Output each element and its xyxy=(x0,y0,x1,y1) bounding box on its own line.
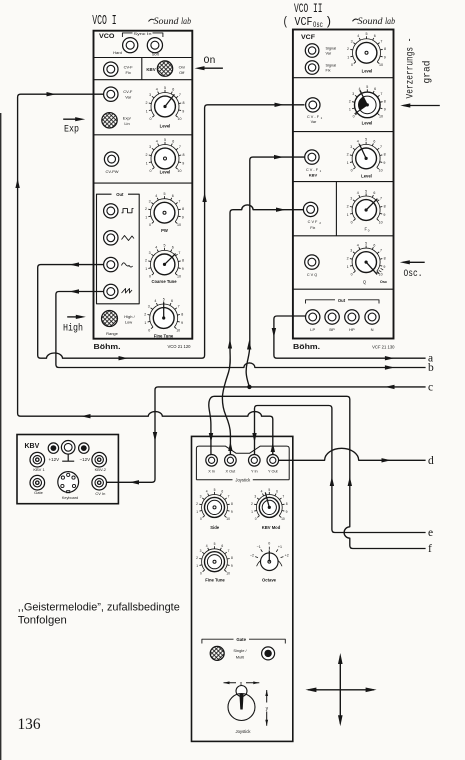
DIN keyboard connector xyxy=(58,472,79,493)
jack square wave out xyxy=(104,204,118,218)
jack CV-F Fix xyxy=(104,62,118,76)
joystick base circle xyxy=(228,694,255,721)
svg-text:d: d xyxy=(428,455,434,467)
svg-text:Fine Tune: Fine Tune xyxy=(205,578,225,583)
svg-text:Tonfolgen: Tonfolgen xyxy=(18,615,67,627)
switch Single/Multi crosshatch xyxy=(210,646,224,660)
svg-text:3: 3 xyxy=(148,305,150,309)
svg-text:5: 5 xyxy=(163,297,165,301)
svg-text:Level: Level xyxy=(361,174,372,179)
svg-text:6: 6 xyxy=(221,544,223,548)
svg-text:LP: LP xyxy=(310,327,315,332)
svg-text:1: 1 xyxy=(347,56,349,60)
svg-text:Fix: Fix xyxy=(326,69,331,73)
svg-text:4: 4 xyxy=(156,140,158,144)
svg-text:Osc.: Osc. xyxy=(404,269,423,280)
svg-text:5: 5 xyxy=(268,488,270,492)
svg-text:4: 4 xyxy=(357,243,359,247)
svg-text:VCO I: VCO I xyxy=(92,14,117,29)
jack triangle wave out xyxy=(104,231,118,245)
svg-text:On: On xyxy=(204,55,216,67)
knob Level (Signal) xyxy=(347,32,386,67)
svg-text:2: 2 xyxy=(145,207,147,211)
knob Level (CV-PW) xyxy=(146,138,185,173)
svg-text:Gate: Gate xyxy=(236,637,246,642)
svg-text:Var: Var xyxy=(326,52,332,56)
svg-text:KBV: KBV xyxy=(309,173,318,178)
svg-text:X Out: X Out xyxy=(226,470,237,474)
svg-text:8: 8 xyxy=(384,256,386,260)
svg-text:3: 3 xyxy=(149,145,151,149)
jack CV-PW xyxy=(104,152,118,166)
svg-text:CV-PW: CV-PW xyxy=(105,169,118,174)
svg-text:4: 4 xyxy=(357,34,359,38)
Sound lab logo left xyxy=(149,19,155,21)
joystick jack sub-box with notch xyxy=(196,446,289,480)
jack Y Out xyxy=(267,455,279,467)
svg-text:X In: X In xyxy=(208,470,215,474)
svg-text:): ) xyxy=(325,15,332,29)
svg-text:Hard: Hard xyxy=(113,50,122,55)
svg-text:6: 6 xyxy=(172,194,174,198)
four way cross arrows xyxy=(308,656,374,724)
wire line c to KBV CV In xyxy=(107,387,426,482)
knob Coarse Tune with pointer xyxy=(145,244,184,279)
svg-text:7: 7 xyxy=(228,495,230,499)
svg-text:−1: −1 xyxy=(257,545,261,549)
Sync In bracket xyxy=(122,33,162,37)
svg-text:VCO 21 120: VCO 21 120 xyxy=(167,344,191,349)
svg-text:4: 4 xyxy=(357,140,359,144)
jack LP out xyxy=(306,310,320,324)
svg-text:Out: Out xyxy=(116,192,124,197)
knob Fine Tune joystick xyxy=(196,542,233,575)
jack BP out xyxy=(325,310,339,324)
joystick Y axis double arrow xyxy=(266,690,268,726)
svg-text:Level: Level xyxy=(362,121,373,126)
svg-text:9: 9 xyxy=(286,510,288,514)
svg-text:1: 1 xyxy=(196,564,198,568)
svg-text:136: 136 xyxy=(18,716,41,733)
jack Y In xyxy=(249,455,261,467)
svg-text:4: 4 xyxy=(154,299,156,303)
svg-text:Var: Var xyxy=(125,94,132,99)
VCO I Out sub-box xyxy=(97,194,140,304)
svg-text:0: 0 xyxy=(351,169,353,173)
knob F0 with pointer xyxy=(347,189,386,224)
joystick lever shaft xyxy=(239,694,243,710)
svg-text:CV-F: CV-F xyxy=(124,65,134,70)
svg-text:6: 6 xyxy=(172,140,174,144)
svg-text:9: 9 xyxy=(383,213,385,217)
jack C-V-F1 KBV xyxy=(305,150,319,164)
junction dot on line c xyxy=(247,385,251,389)
svg-text:5: 5 xyxy=(365,189,367,193)
svg-text:10: 10 xyxy=(177,275,181,279)
svg-text:10: 10 xyxy=(281,517,285,521)
jack Hard sync xyxy=(123,38,138,53)
svg-text:2: 2 xyxy=(146,153,148,157)
svg-text:8: 8 xyxy=(181,312,183,316)
svg-text:0: 0 xyxy=(200,571,202,575)
svg-text:Signal: Signal xyxy=(326,46,337,50)
jack N out xyxy=(365,310,379,324)
svg-text:0: 0 xyxy=(351,63,353,67)
svg-text:2: 2 xyxy=(196,556,198,560)
module VCO II (VCF osc) outline xyxy=(293,30,394,339)
svg-text:10: 10 xyxy=(379,115,383,119)
VCO I row line 4 xyxy=(94,182,193,184)
svg-text:CV-F: CV-F xyxy=(123,89,133,94)
module KBV outline xyxy=(17,435,118,504)
svg-text:3: 3 xyxy=(351,39,353,43)
svg-text:Out: Out xyxy=(338,298,346,303)
svg-text:KBV 1: KBV 1 xyxy=(33,467,45,472)
jack gate filled xyxy=(262,647,275,660)
svg-text:KBV: KBV xyxy=(146,67,155,72)
svg-text:1: 1 xyxy=(145,267,147,271)
svg-text:Exp: Exp xyxy=(64,123,79,135)
knob Side xyxy=(196,488,233,521)
wire branch line c to VCF C-V-F1 KBV xyxy=(246,157,304,387)
svg-text:0: 0 xyxy=(353,115,355,119)
ground symbol xyxy=(62,454,74,461)
svg-text:6: 6 xyxy=(373,191,375,195)
svg-text:Single /: Single / xyxy=(233,648,247,653)
svg-text:6: 6 xyxy=(373,140,375,144)
triangle wave symbol xyxy=(122,236,135,241)
svg-text:10: 10 xyxy=(178,169,182,173)
wire joystick X Out to VCF C-V-F2 Fix xyxy=(222,205,303,455)
svg-text:10: 10 xyxy=(177,223,181,227)
svg-text:Sync In: Sync In xyxy=(134,31,152,36)
svg-text:8: 8 xyxy=(182,207,184,211)
jack X Out xyxy=(225,455,237,467)
svg-text:2: 2 xyxy=(347,256,349,260)
svg-text:0: 0 xyxy=(149,223,151,227)
svg-text:Böhm.: Böhm. xyxy=(293,342,320,351)
knob Level C-V-F1 KBV with pointer xyxy=(347,138,386,173)
svg-text:0: 0 xyxy=(150,169,152,173)
svg-text:1: 1 xyxy=(347,265,349,269)
svg-text:7: 7 xyxy=(179,93,181,97)
jack Signal Fix xyxy=(305,61,319,75)
svg-text:Lin: Lin xyxy=(124,121,129,126)
svg-text:4: 4 xyxy=(206,544,208,548)
svg-text:1: 1 xyxy=(196,510,198,514)
svg-text:10: 10 xyxy=(178,117,182,121)
svg-text:9: 9 xyxy=(231,510,233,514)
knob KBV Mod with pointer xyxy=(251,488,288,521)
svg-text:2: 2 xyxy=(347,204,349,208)
svg-text:VCO II: VCO II xyxy=(294,1,323,16)
svg-text:C V - F: C V - F xyxy=(306,168,319,172)
svg-text:3: 3 xyxy=(254,495,256,499)
svg-text:On/: On/ xyxy=(179,65,186,70)
svg-text:9: 9 xyxy=(231,564,233,568)
svg-text:+12V: +12V xyxy=(48,457,59,462)
svg-text:Exp/: Exp/ xyxy=(123,116,132,121)
svg-text:Off: Off xyxy=(179,70,185,75)
svg-text:Signal: Signal xyxy=(326,63,337,67)
wire sine out to VCF C-V-F1 Var and up-right riser xyxy=(38,105,305,358)
svg-text:7: 7 xyxy=(178,199,180,203)
svg-text:Osc: Osc xyxy=(380,280,387,284)
jack C-V-Q xyxy=(305,255,319,269)
svg-text:Level: Level xyxy=(160,170,171,175)
module VCO I outline xyxy=(94,31,193,339)
svg-text:9: 9 xyxy=(182,109,184,113)
svg-text:3: 3 xyxy=(149,93,151,97)
svg-text:Y Out: Y Out xyxy=(268,470,279,474)
svg-text:8: 8 xyxy=(286,502,288,506)
svg-text:9: 9 xyxy=(181,321,183,325)
svg-text:BP: BP xyxy=(329,327,335,332)
knob PW xyxy=(145,192,184,227)
svg-text:3: 3 xyxy=(350,197,352,201)
svg-text:7: 7 xyxy=(380,197,382,201)
svg-text:9: 9 xyxy=(182,267,184,271)
svg-text:8: 8 xyxy=(384,153,386,157)
svg-text:Joystick: Joystick xyxy=(236,729,252,734)
svg-text:4: 4 xyxy=(156,88,158,92)
svg-text:Coarse Tune: Coarse Tune xyxy=(151,279,177,284)
svg-text:0: 0 xyxy=(268,542,270,546)
svg-text:6: 6 xyxy=(171,299,173,303)
Sound lab logo right xyxy=(353,19,359,21)
svg-text:c: c xyxy=(428,382,433,394)
svg-text:10: 10 xyxy=(379,169,383,173)
svg-text:7: 7 xyxy=(380,92,382,96)
jack C-V-F2 Fix xyxy=(303,202,317,216)
jack C-V-F1 Var xyxy=(306,98,320,112)
svg-text:0: 0 xyxy=(200,517,202,521)
svg-text:Sound: Sound xyxy=(154,17,179,27)
svg-text:7: 7 xyxy=(179,145,181,149)
svg-text:PW: PW xyxy=(161,228,168,233)
svg-text:−12V: −12V xyxy=(79,457,90,462)
svg-text:9: 9 xyxy=(383,265,385,269)
svg-text:9: 9 xyxy=(384,107,386,111)
jack KBV-2 xyxy=(92,452,107,467)
svg-text:Var: Var xyxy=(311,120,317,124)
VCO I row line 1 xyxy=(94,57,193,59)
svg-text:Multi: Multi xyxy=(236,655,245,660)
svg-text:Octave: Octave xyxy=(262,578,277,583)
page edge (book gutter line) xyxy=(0,113,1,760)
svg-text:3: 3 xyxy=(352,92,354,96)
jack Signal Var xyxy=(305,44,319,58)
VCF row line 1 xyxy=(293,77,394,79)
svg-text:Gate: Gate xyxy=(34,490,43,495)
svg-text:3: 3 xyxy=(200,549,202,553)
svg-text:1: 1 xyxy=(146,161,148,165)
jack +12V xyxy=(48,443,58,453)
svg-text:VCF 21 130: VCF 21 130 xyxy=(372,344,395,349)
svg-text:8: 8 xyxy=(231,502,233,506)
jack X In xyxy=(206,455,218,467)
svg-text:lab: lab xyxy=(385,16,395,26)
svg-text:8: 8 xyxy=(183,101,185,105)
joystick lever ball xyxy=(236,686,247,697)
svg-text:1: 1 xyxy=(349,107,351,111)
svg-text:9: 9 xyxy=(384,56,386,60)
svg-text:1: 1 xyxy=(347,161,349,165)
jack sine wave out xyxy=(104,257,118,271)
svg-text:5: 5 xyxy=(214,542,216,546)
svg-text:4: 4 xyxy=(261,490,263,494)
VCF row line 3 xyxy=(293,181,394,183)
svg-text:5: 5 xyxy=(366,85,368,89)
svg-text:10: 10 xyxy=(226,517,230,521)
svg-text:a: a xyxy=(428,352,433,364)
VCO I row line 2 xyxy=(94,79,193,81)
knob Fine Tune with pointer xyxy=(144,297,183,332)
svg-text:Verzerrungs -: Verzerrungs - xyxy=(406,38,417,99)
jack ground xyxy=(61,441,75,455)
module Joystick outline xyxy=(192,436,293,741)
svg-text:3: 3 xyxy=(200,495,202,499)
svg-text:4: 4 xyxy=(155,194,157,198)
svg-text:Fine Tune: Fine Tune xyxy=(154,333,174,338)
svg-text:Level: Level xyxy=(160,123,171,128)
svg-text:Osc: Osc xyxy=(313,21,323,30)
svg-text:0: 0 xyxy=(149,275,151,279)
svg-text:6: 6 xyxy=(221,490,223,494)
svg-text:8: 8 xyxy=(384,99,386,103)
svg-text:Böhm.: Böhm. xyxy=(94,342,121,351)
svg-text:Joystick: Joystick xyxy=(235,478,251,483)
svg-text:8: 8 xyxy=(231,556,233,560)
svg-text:6: 6 xyxy=(373,243,375,247)
svg-text:grad: grad xyxy=(422,61,434,84)
svg-text:3: 3 xyxy=(350,145,352,149)
square wave symbol xyxy=(122,209,134,213)
svg-text:7: 7 xyxy=(380,145,382,149)
annotation High with arrow xyxy=(67,316,82,318)
jack CV In xyxy=(92,475,107,490)
jack Gate KBV xyxy=(30,475,45,490)
svg-text:8: 8 xyxy=(183,153,185,157)
svg-text:7: 7 xyxy=(178,251,180,255)
svg-text:CV In: CV In xyxy=(95,491,105,496)
wire line f to joystick X In xyxy=(209,396,426,548)
svg-text:1: 1 xyxy=(145,216,147,220)
svg-text:3: 3 xyxy=(149,199,151,203)
joystick X axis double arrow xyxy=(224,682,260,684)
svg-text:lab: lab xyxy=(181,16,191,26)
svg-text:C V F: C V F xyxy=(308,220,318,224)
svg-text:,,Geistermelodie”, zufallsbedi: ,,Geistermelodie”, zufallsbedingte xyxy=(18,602,180,614)
svg-text:5: 5 xyxy=(365,138,367,142)
VCF row line 5 xyxy=(293,288,394,290)
svg-text:10: 10 xyxy=(379,220,383,224)
svg-text:Low: Low xyxy=(125,320,132,325)
svg-text:6: 6 xyxy=(276,490,278,494)
svg-text:( VCF: ( VCF xyxy=(283,15,313,29)
svg-text:7: 7 xyxy=(228,549,230,553)
knob Q with pointer to Osc xyxy=(347,241,386,276)
svg-text:4: 4 xyxy=(155,246,157,250)
svg-text:2: 2 xyxy=(144,312,146,316)
svg-text:1: 1 xyxy=(144,321,146,325)
wire VCF LP out to line a xyxy=(274,316,426,358)
svg-text:Sound: Sound xyxy=(358,17,383,27)
jack KBV 1 xyxy=(30,452,45,467)
svg-text:Keyboard: Keyboard xyxy=(62,496,78,500)
wire joystick Y Out to line d xyxy=(278,448,425,460)
svg-text:5: 5 xyxy=(164,138,166,142)
svg-text:7: 7 xyxy=(282,495,284,499)
svg-text:3: 3 xyxy=(350,249,352,253)
switch Exp/Lin crosshatch xyxy=(102,113,117,128)
sawtooth wave symbol xyxy=(122,289,133,294)
knob Octave with pointer and scale xyxy=(250,542,289,571)
annotation Exp with arrow xyxy=(63,118,81,120)
svg-text:2: 2 xyxy=(196,502,198,506)
svg-text:4: 4 xyxy=(206,490,208,494)
svg-text:1: 1 xyxy=(251,510,253,514)
jack -12V xyxy=(79,443,89,453)
jack HP out xyxy=(345,310,359,324)
Gate bracket joystick xyxy=(202,639,285,643)
svg-text:VCO: VCO xyxy=(99,33,115,40)
svg-text:0: 0 xyxy=(255,517,257,521)
svg-text:+2: +2 xyxy=(285,554,289,558)
svg-text:2: 2 xyxy=(347,153,349,157)
svg-text:6: 6 xyxy=(172,246,174,250)
knob Level (CV-F Var) with pointer xyxy=(146,86,185,121)
svg-text:VCF: VCF xyxy=(301,34,315,41)
VCF F0 cell divider xyxy=(335,182,337,236)
svg-text:9: 9 xyxy=(383,161,385,165)
annotation Osc with arrow xyxy=(403,261,425,263)
knob Level C-V-F1 Var with black wedge xyxy=(349,85,386,118)
svg-text:2: 2 xyxy=(146,101,148,105)
svg-text:Fix: Fix xyxy=(310,226,315,230)
svg-text:1: 1 xyxy=(146,109,148,113)
svg-text:High: High xyxy=(63,323,83,335)
svg-text:6: 6 xyxy=(374,87,376,91)
svg-text:8: 8 xyxy=(384,47,386,51)
svg-text:5: 5 xyxy=(365,241,367,245)
svg-text:Side: Side xyxy=(210,525,220,530)
svg-text:N: N xyxy=(371,327,374,332)
svg-text:Level: Level xyxy=(362,69,373,74)
svg-text:10: 10 xyxy=(176,328,180,332)
svg-text:Range: Range xyxy=(106,331,119,336)
svg-text:10: 10 xyxy=(379,63,383,67)
VCF row line 4 xyxy=(293,235,394,237)
svg-text:3: 3 xyxy=(149,251,151,255)
svg-text:5: 5 xyxy=(214,488,216,492)
jack sawtooth wave out xyxy=(104,284,118,298)
svg-text:0: 0 xyxy=(150,117,152,121)
svg-text:KBV: KBV xyxy=(25,443,40,450)
jack CV-F Var xyxy=(104,87,118,101)
wire joystick Y Out up to VCO I CV-F Var xyxy=(18,94,273,454)
svg-text:5: 5 xyxy=(164,244,166,248)
svg-text:6: 6 xyxy=(172,88,174,92)
svg-text:5: 5 xyxy=(164,192,166,196)
jack Soft sync xyxy=(147,38,162,53)
svg-text:f: f xyxy=(428,543,432,555)
svg-text:7: 7 xyxy=(380,249,382,253)
svg-text:0: 0 xyxy=(351,272,353,276)
svg-text:10: 10 xyxy=(226,571,230,575)
svg-text:e: e xyxy=(428,527,433,539)
svg-text:2: 2 xyxy=(251,502,253,506)
